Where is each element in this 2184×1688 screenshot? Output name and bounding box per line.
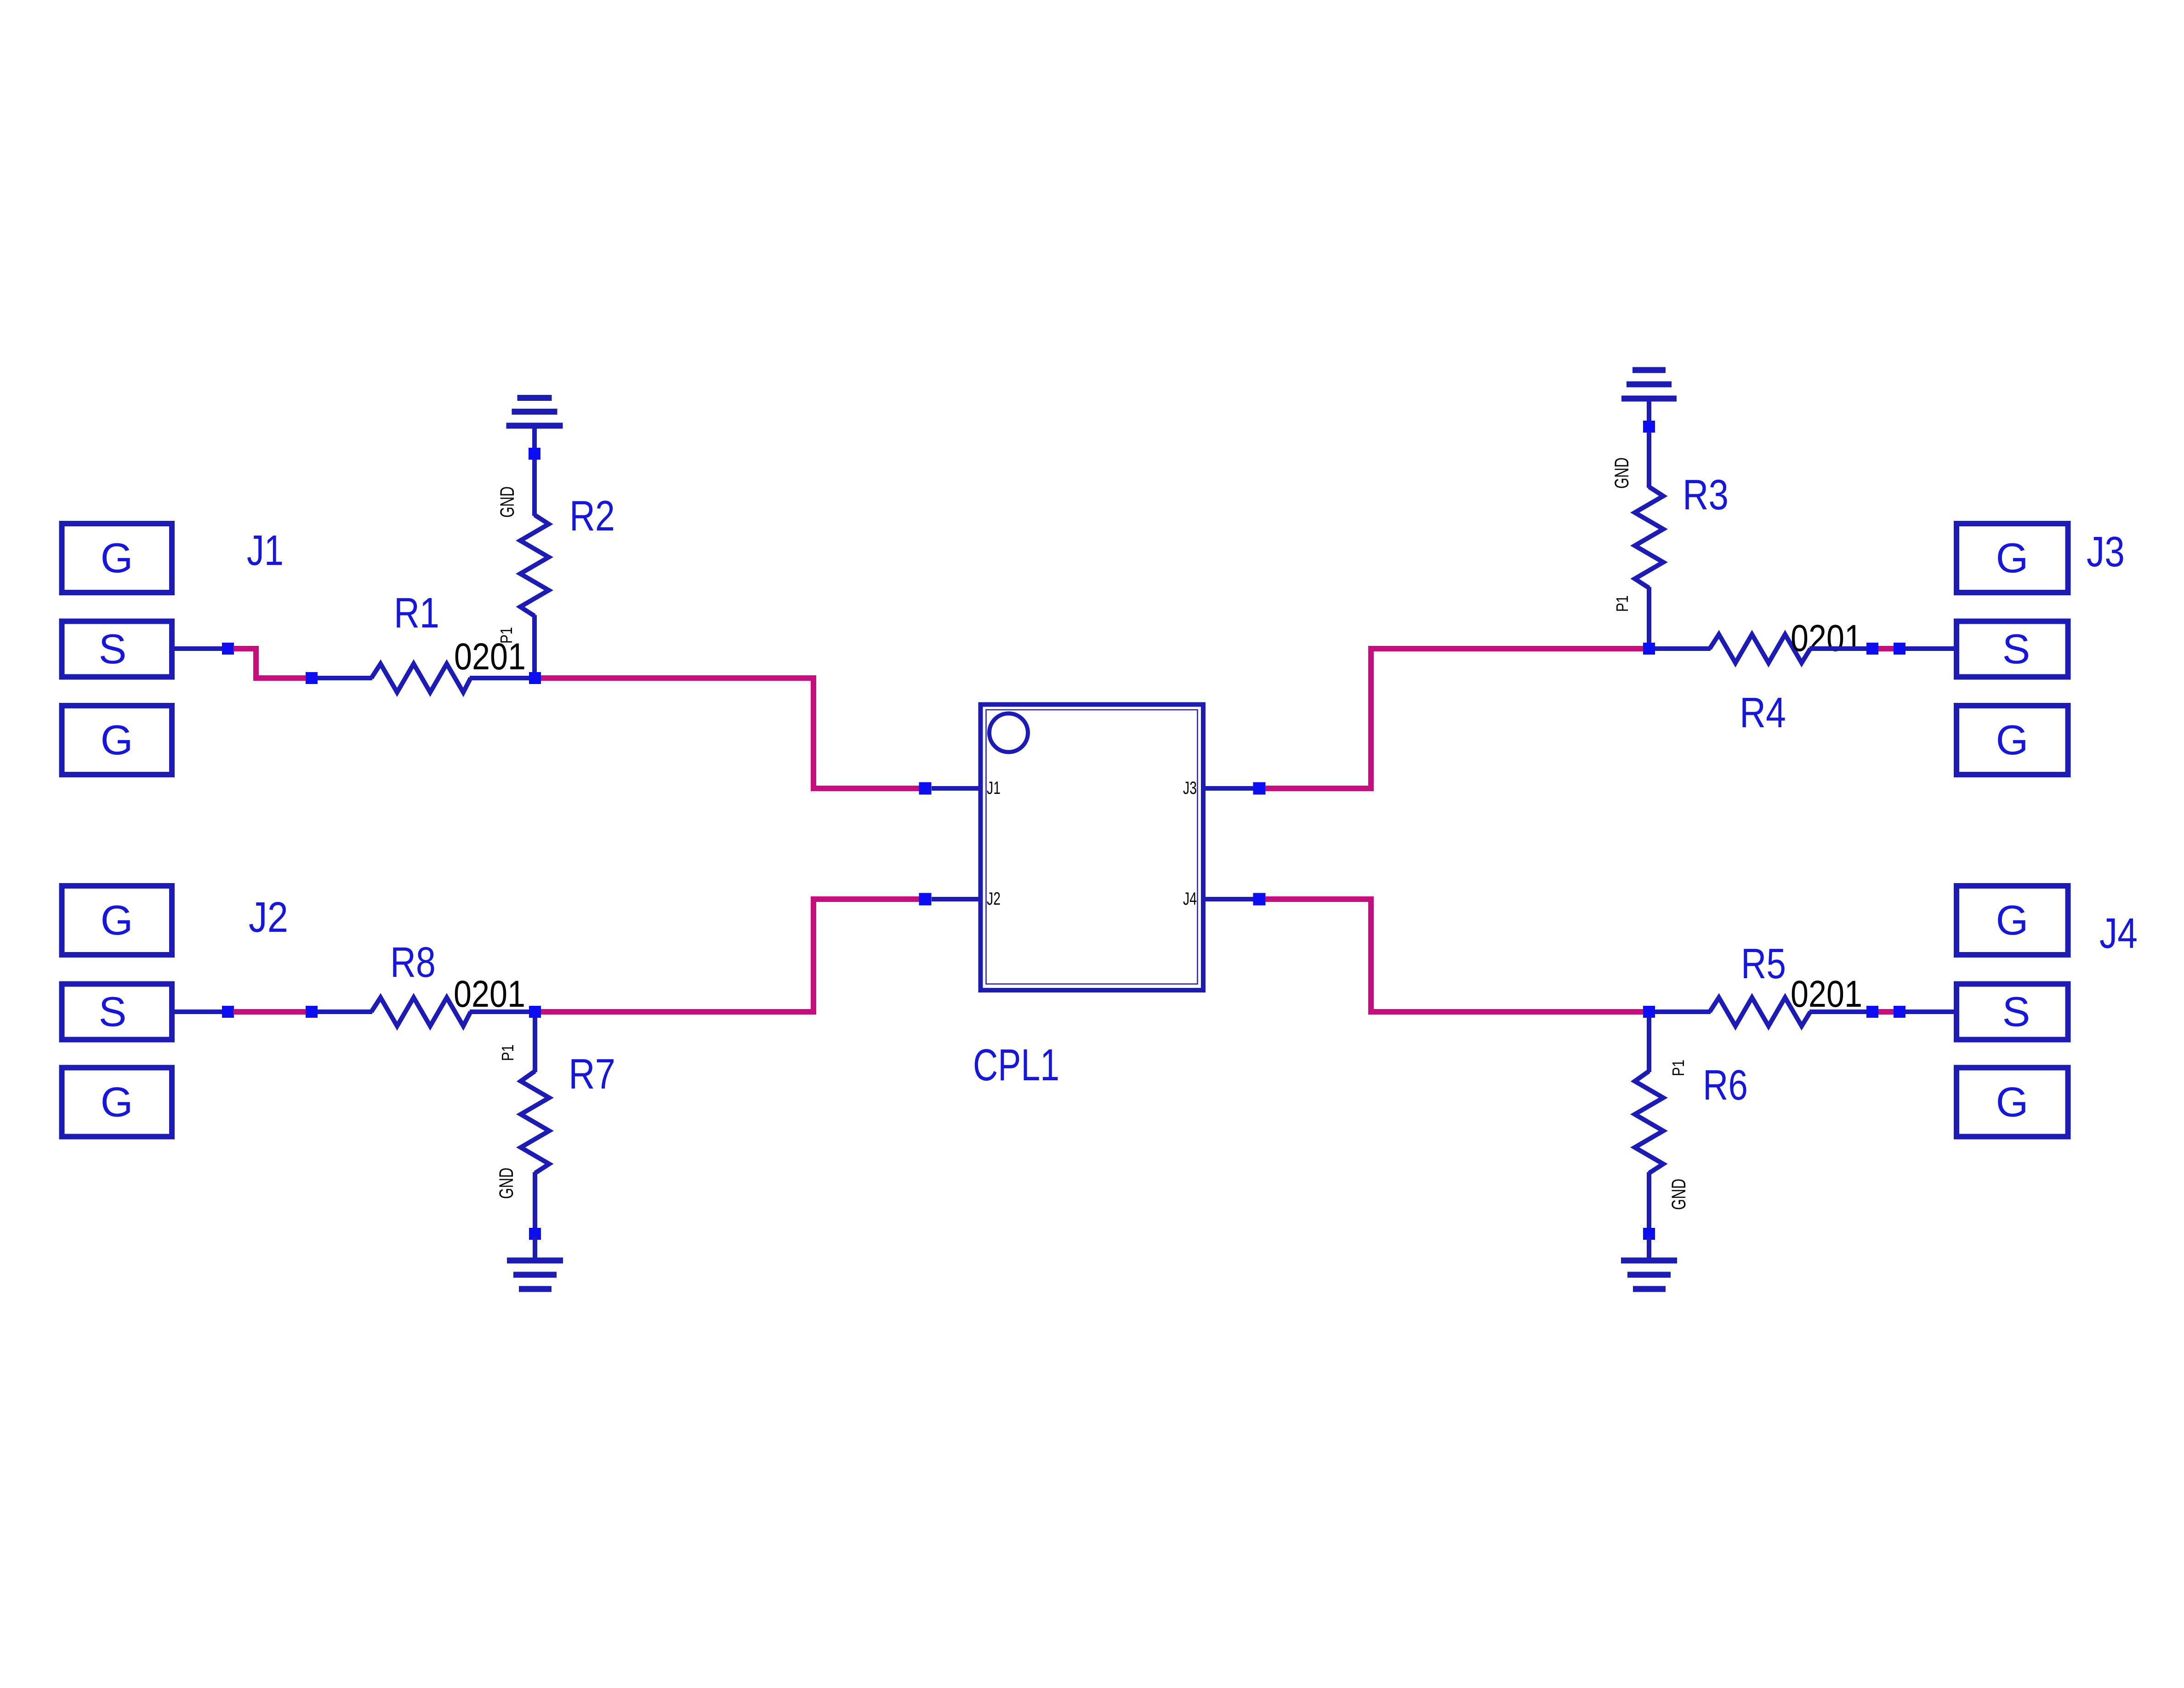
- svg-text:J2: J2: [249, 893, 288, 941]
- svg-text:S: S: [99, 626, 127, 673]
- wire junction to R6: [1647, 1018, 1651, 1072]
- svg-text:P1: P1: [497, 627, 516, 644]
- svg-text:R6: R6: [1703, 1061, 1748, 1109]
- svg-text:GND: GND: [1611, 457, 1633, 489]
- svg-text:R8: R8: [390, 938, 436, 986]
- wire junction to ground: [1647, 1237, 1651, 1260]
- svg-text:G: G: [1996, 897, 2029, 944]
- connector J3 pad G (bottom): [1956, 706, 2068, 775]
- svg-text:P1: P1: [1613, 595, 1632, 612]
- svg-text:J1: J1: [247, 526, 284, 574]
- svg-text:0201: 0201: [1791, 973, 1862, 1015]
- resistor R2: [520, 515, 549, 616]
- resistor R8: [371, 998, 471, 1026]
- resistor R5: [1710, 998, 1810, 1026]
- junction node at J2.S: [222, 1006, 234, 1018]
- svg-text:G: G: [1996, 535, 2029, 582]
- junction node after R5: [1866, 1006, 1878, 1018]
- resistor R6: [1635, 1071, 1663, 1173]
- svg-text:G: G: [101, 717, 133, 764]
- junction node after R4: [1866, 643, 1878, 655]
- svg-text:G: G: [1996, 717, 2029, 764]
- wire junction to R4: [1655, 646, 1711, 651]
- wire J2.S to junction: [175, 1009, 225, 1014]
- wire J1.S to junction: [175, 646, 225, 651]
- wire (net) R1 junction to CPL1 J1: [541, 678, 920, 788]
- wire ground to R2: [532, 428, 537, 516]
- wire junction to R1: [318, 676, 372, 680]
- connector J2 pad G (top): [62, 886, 172, 955]
- connector J2 pad S: [62, 984, 172, 1040]
- svg-text:GND: GND: [495, 1168, 518, 1199]
- junction node R3/R4: [1643, 643, 1655, 655]
- svg-text:G: G: [101, 1079, 133, 1126]
- wire R8 to junction node: [470, 1009, 532, 1014]
- wire (net) J2 pad to R8: [233, 1009, 307, 1015]
- wire ground to R3: [1647, 401, 1651, 488]
- wire junction to ground: [533, 1237, 537, 1260]
- svg-text:P1: P1: [1669, 1060, 1688, 1076]
- junction node before R8: [306, 1006, 318, 1018]
- junction node R1/R2: [529, 672, 541, 684]
- resistor R4: [1710, 634, 1810, 663]
- connector J4 pad G (bottom): [1956, 1068, 2068, 1137]
- svg-text:R2: R2: [569, 492, 615, 540]
- wire R3 to junction: [1647, 587, 1651, 643]
- svg-text:S: S: [99, 989, 127, 1035]
- coupler CPL1 body: [981, 705, 1204, 991]
- connector J3 pad S: [1956, 622, 2068, 677]
- connector J4 pad G (top): [1956, 886, 2068, 955]
- wire R1 to junction node: [470, 676, 532, 680]
- wire R5 to junction node: [1809, 1009, 1866, 1014]
- svg-text:P1: P1: [498, 1044, 517, 1061]
- svg-text:G: G: [101, 897, 133, 944]
- svg-text:R1: R1: [394, 589, 439, 637]
- svg-text:R3: R3: [1683, 471, 1729, 519]
- ground (bottom left): [507, 1258, 563, 1292]
- connector J3 pad G (top): [1956, 524, 2068, 593]
- svg-text:R4: R4: [1740, 689, 1786, 736]
- svg-text:0201: 0201: [454, 973, 525, 1015]
- CPL1 pin J4: [1183, 889, 1266, 909]
- ground (top left): [506, 395, 563, 429]
- CPL1 pin J3: [1183, 778, 1266, 798]
- ground (bottom right): [1621, 1258, 1677, 1292]
- wire R7 to ground junction: [533, 1172, 537, 1231]
- svg-text:J2: J2: [987, 889, 1001, 909]
- resistor R3: [1635, 487, 1663, 588]
- resistor R1: [371, 664, 471, 692]
- junction node at ground (R6): [1643, 1228, 1655, 1240]
- junction node at J1.S: [222, 643, 234, 655]
- wire (net) CPL1 J4 to R5/R6 junction: [1265, 899, 1644, 1012]
- svg-text:J3: J3: [1183, 778, 1197, 798]
- svg-text:J3: J3: [2087, 528, 2125, 576]
- svg-text:R5: R5: [1741, 940, 1786, 987]
- wire junction to J4.S: [1905, 1009, 1954, 1014]
- svg-text:S: S: [2002, 989, 2030, 1035]
- connector J2 pad G (bottom): [62, 1068, 172, 1137]
- junction node before J4.S: [1894, 1006, 1905, 1018]
- wire R4 to junction node: [1809, 646, 1866, 651]
- wire (net) short link (J3): [1878, 646, 1894, 651]
- wire junction to R8: [318, 1009, 372, 1014]
- junction node at ground (R2): [529, 448, 540, 460]
- wire junction to R5: [1655, 1009, 1711, 1014]
- svg-text:GND: GND: [1668, 1179, 1690, 1210]
- junction node at ground (R7): [529, 1228, 541, 1240]
- svg-text:GND: GND: [496, 486, 518, 518]
- connector J1 pad S: [62, 622, 172, 677]
- wire junction to R7: [533, 1018, 537, 1072]
- wire (net) short link (J4): [1878, 1009, 1894, 1015]
- wire (net) R8 junction to CPL1 J2: [541, 899, 920, 1012]
- connector J1 pad G (bottom): [62, 706, 172, 775]
- junction node R8/R7: [529, 1006, 541, 1018]
- CPL1 pin J1: [919, 778, 1001, 798]
- svg-text:0201: 0201: [1791, 617, 1862, 659]
- resistor R7: [521, 1071, 549, 1173]
- CPL1 pin J2: [919, 889, 1001, 909]
- connector J1 pad G (top): [62, 524, 172, 593]
- svg-text:J4: J4: [1183, 889, 1197, 909]
- svg-text:R7: R7: [569, 1050, 615, 1098]
- wire junction to J3.S: [1905, 646, 1954, 651]
- junction node at ground (R3): [1643, 421, 1655, 433]
- svg-text:G: G: [1996, 1079, 2029, 1126]
- wire R2 to junction: [532, 615, 537, 672]
- wire R6 to ground junction: [1647, 1172, 1651, 1231]
- wire (net) CPL1 J3 to R3/R4 junction: [1265, 649, 1644, 788]
- svg-text:G: G: [101, 535, 133, 582]
- svg-text:J4: J4: [2099, 909, 2138, 957]
- junction node before R1: [306, 672, 318, 684]
- junction node before J3.S: [1894, 643, 1905, 655]
- svg-text:S: S: [2002, 626, 2030, 673]
- svg-text:CPL1: CPL1: [973, 1040, 1059, 1090]
- connector J4 pad S: [1956, 984, 2068, 1040]
- ground (top right): [1621, 367, 1677, 402]
- wire (net) jog from J1 pad to R1 row: [233, 649, 307, 678]
- junction node R5/R6: [1643, 1006, 1655, 1018]
- svg-text:J1: J1: [987, 778, 1001, 798]
